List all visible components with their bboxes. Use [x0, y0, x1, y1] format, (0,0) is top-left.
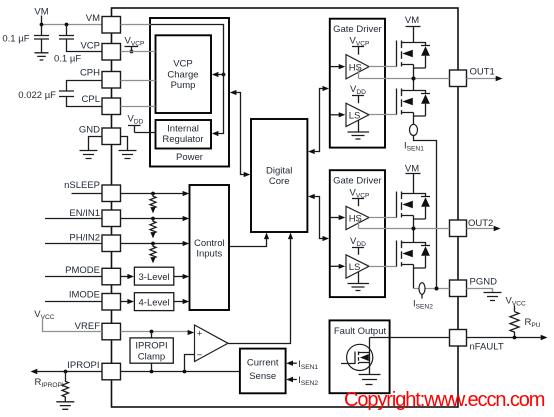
Internal Regulator block — [156, 120, 212, 149]
wire OUT1 external arrow — [467, 76, 503, 81]
pin CPL — [82, 94, 121, 115]
ground (GD1) — [348, 121, 370, 140]
svg-text:nFAULT: nFAULT — [470, 342, 504, 353]
svg-text:Gate Driver: Gate Driver — [333, 176, 382, 187]
pin IPROPI — [67, 360, 120, 380]
svg-text:Fault Output: Fault Output — [334, 326, 387, 337]
node VM supply top-left — [34, 7, 101, 27]
svg-text:0.022 µF: 0.022 µF — [18, 90, 56, 101]
wire Power to Digital Core — [230, 90, 251, 177]
svg-text:0.1 µF: 0.1 µF — [54, 54, 81, 65]
wire PH/IN2 line — [121, 241, 190, 246]
svg-text:IPROPI: IPROPI — [67, 360, 99, 371]
capacitor C3 0.022uF — [18, 81, 101, 107]
node VVCP tap — [125, 36, 146, 54]
pin nFAULT — [450, 330, 504, 353]
wire IMODE external stub — [45, 301, 102, 303]
transistor fault FET — [341, 338, 373, 375]
node VDD (GD1) — [350, 84, 366, 103]
wire PGND external stub — [467, 289, 493, 293]
wire VCP line — [121, 51, 156, 53]
svg-text:Sense: Sense — [249, 371, 276, 382]
transistor LS1 FET — [369, 79, 414, 125]
node VVCP (GD2) — [350, 187, 371, 206]
current sensor ISEN1 — [404, 124, 437, 288]
Current Sense block — [240, 349, 286, 394]
node VCC (left) — [34, 309, 102, 332]
wire GND right stub — [121, 137, 128, 151]
pin OUT1 — [450, 67, 495, 87]
pin VCP — [80, 41, 120, 61]
buffer HS1 — [330, 55, 369, 79]
svg-text:Copyright:www.eccn.com: Copyright:www.eccn.com — [344, 389, 545, 411]
pin OUT2 — [450, 218, 494, 237]
svg-text:HS: HS — [349, 213, 362, 224]
svg-text:CPL: CPL — [82, 94, 100, 105]
wire Digital Core to Gate Driver 2 — [308, 194, 329, 241]
Fault Output block — [330, 320, 390, 393]
capacitor C1 0.1uF — [2, 25, 49, 53]
svg-text:nSLEEP: nSLEEP — [64, 180, 100, 191]
svg-text:Internal: Internal — [167, 124, 199, 135]
ground (GND pin right) — [119, 151, 137, 159]
resistor R_PU — [510, 312, 541, 338]
svg-text:VM: VM — [86, 13, 100, 24]
resistor R_IPROPI — [35, 372, 69, 402]
wire IPROPI line to Current Sense — [121, 370, 241, 374]
node VDD (GD2) — [350, 236, 366, 255]
pin CPH — [80, 68, 121, 89]
svg-text:GND: GND — [79, 125, 100, 136]
current sensor ISEN2 — [413, 283, 433, 311]
svg-text:OUT2: OUT2 — [468, 218, 493, 229]
resistor nSLEEP pulldown — [150, 194, 156, 214]
chip boundary — [112, 8, 459, 407]
wire 4-Level to Control Inputs — [174, 299, 189, 304]
svg-text:0.1 µF: 0.1 µF — [2, 34, 29, 45]
svg-text:Digital: Digital — [266, 166, 292, 177]
node VDD tap — [128, 114, 156, 133]
Control Inputs block — [190, 185, 230, 310]
wire Control Inputs to Digital Core — [229, 233, 269, 247]
svg-text:−: − — [197, 350, 203, 361]
wire CPL line — [121, 106, 156, 108]
wire nSLEEP line — [121, 191, 190, 196]
wire PMODE line — [121, 274, 135, 279]
VCP Charge Pump block — [156, 35, 212, 113]
svg-text:IMODE: IMODE — [69, 290, 100, 301]
3-Level block — [134, 267, 173, 285]
svg-text:VCP: VCP — [80, 41, 100, 52]
wire EN/IN1 line — [121, 216, 190, 221]
ground (fault FET) — [359, 375, 381, 385]
pin PH/IN2 — [69, 233, 120, 252]
buffer LS2 — [330, 255, 369, 278]
wire VREF line — [121, 330, 195, 336]
wire GND left stub — [89, 137, 103, 151]
svg-text:4-Level: 4-Level — [139, 297, 170, 308]
resistor EN/IN1 pulldown — [150, 219, 156, 239]
wire op-amp output to Digital Core — [228, 233, 293, 344]
svg-text:Clamp: Clamp — [138, 351, 165, 362]
pin VREF — [75, 321, 121, 340]
svg-text:LS: LS — [349, 111, 361, 122]
wire fault to nFAULT pin — [370, 337, 450, 339]
svg-text:Regulator: Regulator — [162, 134, 203, 145]
transistor LS2 FET — [369, 229, 414, 289]
Gate Driver 2 block — [330, 170, 385, 297]
IPROPI Clamp block — [130, 332, 173, 372]
wire nFAULT external arrow — [467, 335, 548, 340]
wire OUT2 external arrow — [467, 226, 501, 231]
4-Level block — [134, 293, 173, 311]
svg-text:Gate Driver: Gate Driver — [333, 24, 382, 35]
pin GND — [79, 125, 121, 145]
pin PMODE — [65, 265, 120, 285]
wire VM internal rail — [151, 25, 226, 137]
wire Digital Core to Gate Driver 1 — [308, 86, 329, 154]
svg-text:Inputs: Inputs — [196, 249, 222, 260]
pin VM — [86, 13, 121, 33]
svg-text:Control: Control — [194, 238, 225, 249]
buffer LS1 — [330, 103, 369, 126]
svg-text:CPH: CPH — [80, 68, 100, 79]
svg-text:PMODE: PMODE — [65, 265, 100, 276]
wire OUT2 net — [359, 218, 450, 231]
transistor HS1 FET — [369, 41, 414, 79]
svg-text:IPROPI: IPROPI — [135, 340, 167, 351]
wire nSLEEP external stub — [72, 193, 103, 195]
pin IMODE — [69, 290, 121, 311]
svg-text:PGND: PGND — [470, 276, 498, 287]
diode (HS1 body) — [414, 43, 431, 69]
node VCC (right) — [506, 296, 527, 312]
wire 3-Level to Control Inputs — [174, 274, 189, 279]
wire ISEN2 into Current Sense — [286, 375, 318, 387]
svg-text:VM: VM — [405, 15, 419, 26]
capacitor C2 0.1uF — [54, 25, 102, 65]
wire IMODE line — [121, 299, 135, 304]
svg-text:Power: Power — [176, 152, 203, 163]
Power block — [150, 18, 229, 167]
svg-text:Charge: Charge — [167, 69, 198, 80]
svg-text:VCP: VCP — [173, 59, 193, 70]
svg-text:VREF: VREF — [75, 321, 101, 332]
pin EN/IN1 — [69, 208, 120, 227]
svg-text:Current: Current — [247, 357, 279, 368]
svg-text:Core: Core — [269, 176, 290, 187]
wire PMODE external stub — [45, 276, 102, 278]
svg-text:OUT1: OUT1 — [470, 67, 495, 78]
svg-text:PH/IN2: PH/IN2 — [69, 233, 100, 244]
wire EN/IN1 external stub — [45, 218, 102, 220]
ground (GD2) — [348, 272, 370, 291]
diode (LS2 body) — [414, 243, 431, 269]
svg-text:EN/IN1: EN/IN1 — [69, 208, 100, 219]
ground (C1) — [35, 53, 49, 60]
wire PGND net — [414, 287, 450, 291]
ground (GND pin left) — [80, 151, 98, 159]
wire VM pin to power — [121, 24, 151, 26]
resistor PH/IN2 pulldown — [150, 244, 156, 264]
svg-text:Pump: Pump — [171, 80, 196, 91]
transistor HS2 FET — [369, 192, 414, 229]
node VVCP (GD1) — [350, 36, 371, 55]
wire ISEN1 into Current Sense — [286, 359, 318, 371]
svg-text:3-Level: 3-Level — [139, 272, 170, 283]
wire CPH line — [121, 80, 156, 82]
pin PGND — [450, 276, 498, 296]
Gate Driver 1 block — [330, 19, 385, 148]
svg-text:HS: HS — [349, 62, 362, 73]
wire PH/IN2 external stub — [45, 243, 102, 245]
svg-text:LS: LS — [349, 262, 361, 273]
ground (PGND) — [484, 293, 502, 301]
wire IPROPI external with arrow — [31, 369, 103, 374]
diode (LS1 body) — [414, 91, 431, 117]
diode (HS2 body) — [414, 194, 431, 220]
svg-text:+: + — [197, 328, 203, 339]
op-amp U1 — [185, 325, 229, 372]
ground (R_IPROPI) — [56, 402, 74, 410]
wire OUT1 net — [359, 67, 450, 81]
node VM (bridge 1) — [405, 15, 421, 43]
Digital Core block — [251, 119, 307, 232]
pin nSLEEP — [64, 180, 120, 202]
buffer HS2 — [330, 206, 369, 229]
node VM (bridge 2) — [405, 164, 421, 194]
